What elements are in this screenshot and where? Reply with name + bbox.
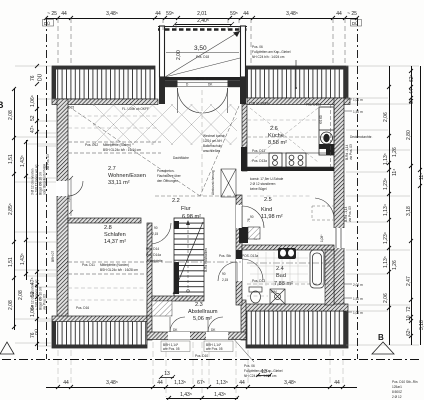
svg-text:59⁵: 59⁵ [166, 11, 174, 17]
svg-text:2,08: 2,08 [8, 110, 14, 120]
eaves line left [46, 18, 48, 359]
svg-text:3,18: 3,18 [419, 320, 424, 330]
svg-text:Flur: Flur [181, 206, 191, 212]
dormer right wall [241, 26, 246, 77]
svg-text:Pos. D18: Pos. D18 [196, 55, 209, 59]
svg-text:~ 25: ~ 25 [47, 11, 57, 17]
svg-text:44: 44 [157, 380, 163, 386]
abstellraum left wall [147, 300, 152, 340]
right wall kind window [333, 228, 345, 248]
svg-text:2,15: 2,15 [152, 232, 158, 236]
left exterior wall [57, 99, 68, 320]
knee wall top-right [247, 98, 350, 105]
svg-text:via Pos. 03: via Pos. 03 [349, 144, 353, 160]
pos d13 labels kitchen [252, 149, 267, 163]
stove [269, 153, 306, 167]
svg-text:B-Rd Holzbalken: B-Rd Holzbalken [204, 248, 208, 272]
deckenabschluss vertical dashed [330, 104, 332, 167]
svg-text:2,06: 2,06 [383, 293, 389, 303]
svg-text:Wechsel konstr.: Wechsel konstr. [203, 134, 226, 138]
room kueche [268, 126, 287, 146]
svg-text:2,06: 2,06 [383, 112, 389, 122]
room flur [172, 198, 201, 220]
svg-text:Deckendurchbr.: Deckendurchbr. [350, 135, 373, 139]
roof height lines right bottom [353, 283, 363, 315]
svg-text:1,51: 1,51 [8, 257, 14, 267]
svg-text:2,80: 2,80 [406, 130, 412, 140]
svg-text:wie Pos. 05: wie Pos. 05 [163, 347, 180, 351]
svg-text:59⁵: 59⁵ [230, 11, 238, 17]
svg-text:-Mittelpfette: -Mittelpfette [146, 259, 163, 263]
svg-text:72: 72 [406, 306, 412, 312]
svg-text:den Öffnungen: den Öffnungen [157, 179, 178, 183]
svg-text:14,37 m²: 14,37 m² [104, 239, 126, 245]
svg-text:Pos. D13: Pos. D13 [252, 149, 265, 153]
svg-text:3,18: 3,18 [406, 206, 412, 216]
abstellraum right wall [241, 300, 246, 340]
dormer parapet [158, 27, 247, 30]
bottom dim row 2 [166, 398, 238, 400]
svg-text:wie Pos. 05: wie Pos. 05 [206, 347, 223, 351]
kitchen dashed diagonals [250, 108, 318, 162]
wechsel konstr note [203, 134, 226, 153]
svg-text:2.5: 2.5 [264, 197, 272, 203]
svg-text:3,50: 3,50 [194, 45, 207, 52]
svg-text:2.8: 2.8 [104, 225, 112, 231]
svg-text:anschließen: anschließen [203, 149, 220, 153]
left wall balcony-door opening [56, 181, 69, 196]
svg-text:12/24 cm-NH: 12/24 cm-NH [203, 139, 222, 143]
witness lines bottom [58, 342, 343, 397]
svg-text:DÜ: DÜ [352, 21, 358, 26]
svg-text:5,06 m²: 5,06 m² [193, 316, 212, 322]
svg-text:W PB. D1: W PB. D1 [196, 77, 210, 81]
svg-text:KS 60: KS 60 [319, 115, 323, 124]
svg-text:POS. D13a: POS. D13a [242, 254, 258, 258]
svg-text:Pos. D14: Pos. D14 [146, 247, 159, 251]
svg-text:Dachfläche: Dachfläche [173, 156, 189, 160]
center axis dashed [201, 90, 203, 196]
knee wall bottom-left [52, 316, 147, 322]
bad door arc [218, 259, 263, 281]
svg-text:47⁶: 47⁶ [30, 125, 36, 133]
svg-text:2,00 m: 2,00 m [353, 283, 363, 287]
kitchen black corner [319, 144, 334, 155]
svg-text:Fußpfetten am Kap.-Giebel: Fußpfetten am Kap.-Giebel [252, 50, 291, 54]
roof band bottom-right [246, 311, 348, 348]
svg-text:1,13⁵: 1,13⁵ [174, 380, 186, 386]
kind window swing arc [315, 198, 334, 219]
porenbeton note [157, 169, 182, 183]
svg-text:2.4: 2.4 [276, 266, 284, 272]
abstellraum window openings [168, 332, 190, 340]
BRH labels [161, 341, 190, 352]
svg-text:Kind: Kind [261, 207, 272, 213]
shaft with X [221, 169, 236, 197]
svg-text:3,48⁵: 3,48⁵ [286, 11, 298, 17]
bottom right text block [392, 380, 418, 399]
svg-text:5⁰: 5⁰ [409, 99, 415, 104]
svg-text:1,43⁵: 1,43⁵ [20, 155, 26, 167]
svg-text:44⁵: 44⁵ [409, 86, 415, 94]
svg-text:2 Ø 12 standieren: 2 Ø 12 standieren [250, 182, 276, 186]
svg-text:1,13⁵: 1,13⁵ [383, 153, 389, 165]
knee wall bottom-right [242, 304, 348, 311]
wall kind/bad [242, 245, 334, 250]
svg-text:8:500Z: 8:500Z [392, 390, 402, 394]
roof height lines right top [353, 98, 363, 114]
section marker right [372, 333, 394, 354]
section marker left [0, 342, 14, 354]
svg-text:Mittelpfette (Norden): Mittelpfette (Norden) [100, 263, 129, 267]
svg-text:62⁵: 62⁵ [406, 328, 412, 336]
top dim witness verticals [58, 18, 345, 64]
svg-text:Pos. 06: Pos. 06 [244, 364, 255, 368]
dachflaeche dashed diagonals [68, 106, 239, 196]
roof band bottom-left [52, 321, 147, 348]
svg-text:via Pos. 03: via Pos. 03 [46, 154, 50, 170]
kitchen counter [247, 153, 334, 167]
bad right wall inner layer [325, 250, 334, 305]
svg-text:1,43⁵: 1,43⁵ [20, 253, 26, 265]
svg-text:1,00 m: 1,00 m [353, 98, 363, 102]
svg-text:Balkenschub: Balkenschub [203, 144, 221, 148]
roof band top-left [52, 66, 155, 99]
svg-text:2,01: 2,01 [197, 11, 207, 17]
svg-text:WM: WM [271, 290, 277, 294]
kind door arc [242, 206, 264, 228]
svg-text:konstr. 17,5er U-Schale: konstr. 17,5er U-Schale [250, 177, 284, 181]
svg-text:via Pos. 03: via Pos. 03 [43, 294, 47, 310]
svg-text:1,43⁵: 1,43⁵ [214, 392, 226, 398]
svg-text:2,15: 2,15 [222, 278, 228, 282]
svg-text:1,00 m: 1,00 m [353, 311, 363, 315]
svg-text:2,08: 2,08 [18, 290, 24, 300]
wall schlafen/wohnen [68, 218, 141, 223]
dormer left wall [160, 26, 165, 77]
svg-text:1,08⁵: 1,08⁵ [320, 234, 324, 242]
svg-text:1,23⁸: 1,23⁸ [383, 178, 389, 190]
wall kueche/kind [247, 167, 334, 171]
rebar note left block2 [31, 279, 47, 310]
sink counter column [319, 107, 334, 155]
bathtub [310, 250, 324, 288]
svg-text:Pos. D15a: Pos. D15a [306, 103, 321, 107]
svg-text:Porenbeton-: Porenbeton- [157, 169, 175, 173]
pos d14 labels [146, 247, 163, 263]
svg-text:44: 44 [336, 11, 342, 17]
svg-text:1,13⁵: 1,13⁵ [383, 256, 389, 268]
svg-text:2,47: 2,47 [406, 276, 412, 286]
svg-text:BSH GL24c b/h : 16/28 cm: BSH GL24c b/h : 16/28 cm [100, 268, 138, 272]
wall flur/kind-bad vertical [236, 195, 242, 305]
svg-text:1,23⁸: 1,23⁸ [383, 232, 389, 244]
svg-text:Abstellraum: Abstellraum [188, 309, 218, 315]
svg-text:13: 13 [261, 369, 267, 375]
room wohnen/essen [108, 166, 146, 186]
u-schale note [250, 177, 284, 191]
svg-text:Flachstürze über: Flachstürze über [157, 174, 182, 178]
svg-text:3,48⁵: 3,48⁵ [106, 11, 118, 17]
svg-text:Pos. D13a: Pos. D13a [252, 159, 267, 163]
flur top dashed boundary [155, 195, 236, 197]
svg-text:90: 90 [250, 215, 254, 219]
svg-text:1,50 m: 1,50 m [353, 110, 363, 114]
svg-text:2,40⁵: 2,40⁵ [197, 18, 209, 24]
bad tile grid [250, 252, 308, 286]
top dim row 1 [44, 11, 359, 20]
svg-text:44: 44 [243, 11, 249, 17]
svg-text:33,11 m²: 33,11 m² [108, 180, 130, 186]
svg-text:44: 44 [239, 380, 245, 386]
svg-text:11⁴: 11⁴ [392, 169, 398, 176]
void hatch below stair [152, 301, 172, 316]
svg-text:44: 44 [61, 11, 67, 17]
toilet [249, 287, 262, 303]
svg-text:44: 44 [334, 380, 340, 386]
svg-text:1,26: 1,26 [392, 147, 398, 157]
pos 06 fusspfetten top [252, 45, 297, 89]
svg-text:44: 44 [63, 380, 69, 386]
svg-text:1,84⁵: 1,84⁵ [67, 194, 71, 202]
svg-text:Pos. D14a: Pos. D14a [146, 253, 161, 257]
svg-text:Küche: Küche [268, 133, 284, 139]
svg-text:DÜ: DÜ [44, 21, 50, 26]
svg-text:13: 13 [164, 371, 170, 377]
svg-text:2.3: 2.3 [195, 302, 203, 308]
svg-text:Pos. D10 Stb.-Rin: Pos. D10 Stb.-Rin [392, 380, 418, 384]
svg-text:Pos. 06: Pos. 06 [252, 45, 263, 49]
eaves line right [357, 18, 359, 359]
svg-text:Pos. Stb: Pos. Stb [219, 254, 231, 258]
svg-text:1,13⁴: 1,13⁴ [383, 204, 389, 216]
svg-text:52: 52 [30, 115, 36, 121]
svg-text:90: 90 [222, 272, 226, 276]
svg-text:11⁴: 11⁴ [419, 173, 424, 180]
svg-text:Pos. D12: Pos. D12 [85, 143, 98, 147]
roof-slope diamond lattice [0, 104, 424, 145]
roof band top-right [244, 66, 348, 98]
svg-text:2,00: 2,00 [176, 50, 182, 60]
french door arcs [178, 88, 228, 113]
svg-text:keine Bügel: keine Bügel [250, 187, 267, 191]
svg-text:11,98 m²: 11,98 m² [261, 214, 283, 220]
pos 06 fusspfetten bottom [232, 337, 283, 378]
rebar note left block1 [31, 163, 47, 195]
DU labels top [43, 20, 54, 27]
mittelpfette sueden [68, 142, 161, 153]
svg-text:62⁵: 62⁵ [409, 74, 415, 82]
svg-text:Absturzsicherung: Absturzsicherung [211, 170, 215, 195]
shower [270, 289, 285, 304]
room bad [274, 266, 293, 287]
svg-text:Pos. D11: Pos. D11 [82, 263, 95, 267]
svg-text:1,43⁵: 1,43⁵ [180, 392, 192, 398]
svg-text:1,26: 1,26 [392, 260, 398, 270]
wall schlafen/flur vertical [147, 223, 152, 316]
witness lines left [15, 66, 56, 346]
interior dim 1,84 [67, 176, 73, 216]
svg-text:Pos. D13: Pos. D13 [252, 279, 265, 283]
svg-text:3,48⁵: 3,48⁵ [106, 380, 118, 386]
svg-text:90: 90 [154, 226, 158, 230]
knee wall top-left [52, 99, 158, 105]
svg-text:Wohnen/Essen: Wohnen/Essen [108, 173, 146, 179]
dormer door wall [165, 77, 240, 87]
svg-text:~ 25: ~ 25 [347, 11, 357, 17]
dormer terrace diagonals [165, 31, 240, 77]
svg-text:Schlafen: Schlafen [104, 232, 126, 238]
abstellraum bottom wall [147, 332, 246, 340]
svg-text:44: 44 [155, 11, 161, 17]
room kind [261, 197, 283, 220]
dashed height lines wohnen [68, 116, 319, 300]
svg-text:Pos. D16: Pos. D16 [76, 306, 89, 310]
svg-text:Pos. D10: Pos. D10 [195, 354, 208, 358]
wall kueche left vertical [242, 104, 247, 171]
stair bottom wall [152, 296, 204, 301]
svg-text:BSH GL24c b/h : 16/44 cm: BSH GL24c b/h : 16/44 cm [103, 148, 141, 152]
svg-text:2.7: 2.7 [108, 166, 116, 172]
schlafen door arc [150, 223, 171, 244]
top dim row 2 [173, 18, 234, 26]
svg-text:Mittelpfette (Süden): Mittelpfette (Süden) [103, 143, 131, 147]
svg-text:DÜ: DÜ [34, 329, 39, 335]
dashed height line bad [247, 283, 334, 285]
svg-text:FL. 7,0B ab OKFF: FL. 7,0B ab OKFF [243, 102, 269, 106]
svg-text:6,98 m²: 6,98 m² [182, 214, 201, 220]
svg-text:2.2: 2.2 [172, 198, 180, 204]
svg-text:B: B [0, 100, 4, 110]
dashed height line kitchen [247, 136, 334, 138]
washbasin [278, 248, 296, 259]
svg-text:1,06⁶: 1,06⁶ [30, 95, 36, 107]
svg-text:8,58 m²: 8,58 m² [268, 140, 287, 146]
shelf right of stair [248, 227, 260, 239]
stair [173, 218, 204, 296]
svg-text:2 Ø 12: 2 Ø 12 [392, 395, 402, 399]
svg-text:1,13⁵: 1,13⁵ [216, 380, 228, 386]
svg-text:2,08: 2,08 [8, 300, 14, 310]
svg-text:BRH 07: BRH 07 [51, 251, 55, 262]
svg-text:B: B [378, 333, 384, 342]
svg-text:via Pos. 03: via Pos. 03 [348, 206, 352, 222]
svg-text:76: 76 [30, 75, 36, 81]
room schlafen [104, 225, 126, 245]
svg-text:67⁵: 67⁵ [197, 380, 205, 386]
svg-text:10: 10 [406, 315, 412, 321]
dormer dim 3,50 [166, 45, 239, 53]
dashed furniture kind [312, 206, 334, 220]
svg-text:1,50 m: 1,50 m [353, 297, 363, 301]
svg-text:3,48⁵: 3,48⁵ [284, 380, 296, 386]
svg-text:1,51: 1,51 [8, 154, 14, 164]
svg-text:125ar1: 125ar1 [392, 385, 402, 389]
svg-text:2,85⁵: 2,85⁵ [8, 203, 14, 215]
witness lines right [346, 66, 419, 345]
svg-text:NH C24 b/h : 14/24 cm: NH C24 b/h : 14/24 cm [252, 55, 285, 59]
section line [2, 359, 420, 361]
right exterior wall [334, 98, 344, 306]
mittelpfette norden [68, 262, 334, 274]
svg-text:DÜ: DÜ [37, 73, 44, 81]
